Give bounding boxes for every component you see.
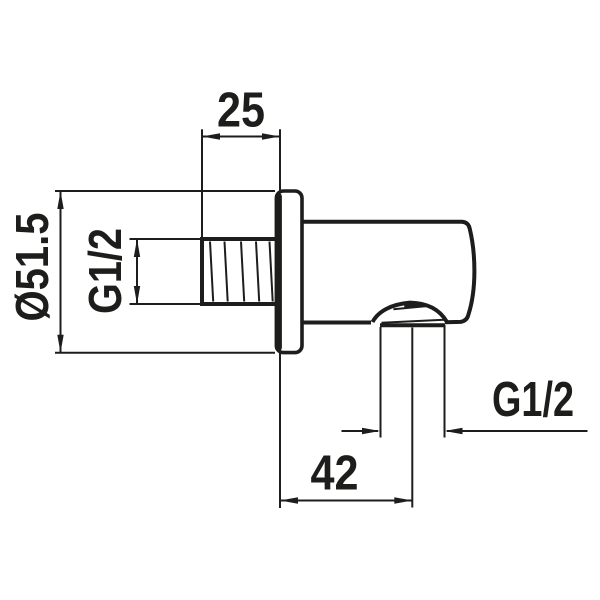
thread hatch lines	[210, 242, 213, 302]
extension line outlet right for G1/2	[444, 325, 446, 438]
svg-text:G1/2: G1/2	[492, 373, 574, 427]
extension line top for left G1/2	[130, 238, 203, 240]
extension line outlet left for G1/2	[380, 327, 382, 438]
extension line outlet centre for dim 42	[411, 328, 413, 508]
extension line top for dim 51.5	[55, 190, 275, 192]
outlet dome outer curve	[373, 303, 447, 322]
outlet base slanted edge	[382, 320, 445, 323]
body bottom outline left of outlet	[303, 321, 372, 325]
dimension line 51.5	[60, 191, 62, 353]
svg-text:42: 42	[311, 447, 359, 501]
svg-text:G1/2: G1/2	[79, 228, 131, 314]
svg-text:Ø51.5: Ø51.5	[6, 213, 58, 322]
outlet dome apex fill	[404, 303, 433, 308]
wall plate (escutcheon)	[276, 191, 302, 353]
svg-text:25: 25	[217, 84, 265, 138]
dimension line left G1/2	[136, 239, 138, 304]
body top outline	[303, 222, 475, 322]
outlet base thick band	[380, 323, 445, 327]
outlet dome inner edge line	[393, 306, 430, 310]
extension line bottom for dim 51.5	[55, 352, 275, 354]
dimension line 25	[202, 136, 280, 138]
threaded pipe body	[202, 239, 278, 304]
extension line bottom for left G1/2	[130, 303, 203, 305]
extension line for dim 25 / dim 42 (wall face, shared vertical)	[279, 129, 281, 508]
wall plate front face thick edge	[275, 197, 282, 348]
dimension line 42	[280, 500, 412, 502]
extension line for dim 25 (left, at thread end)	[201, 129, 203, 237]
dimension line bottom G1/2 right arrow	[447, 430, 588, 432]
dimension line bottom G1/2 left arrow	[342, 430, 379, 432]
